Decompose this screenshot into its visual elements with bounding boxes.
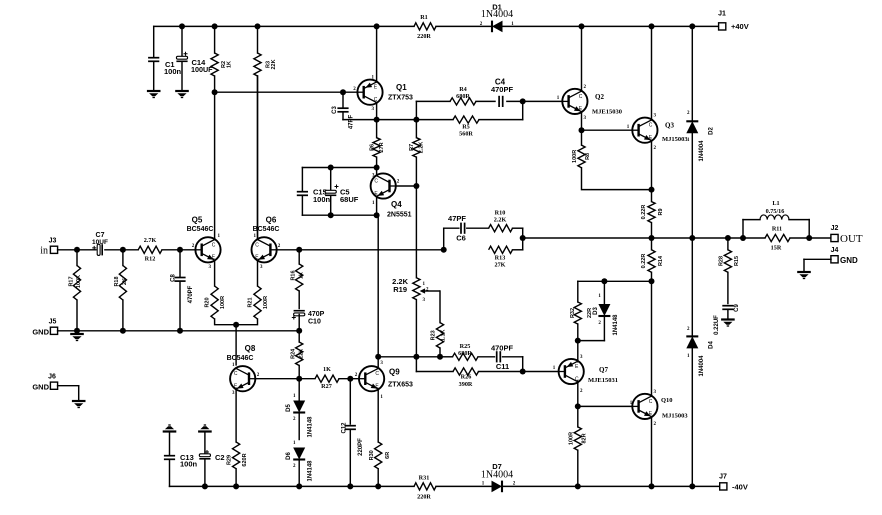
svg-text:100n: 100n: [180, 460, 198, 469]
capacitor C4 470PF: [498, 96, 500, 107]
svg-text:100R: 100R: [572, 150, 578, 163]
resistor R24 22K: [298, 331, 300, 342]
capacitor C12 220PF: [349, 379, 351, 424]
terminal J6 GND: [50, 382, 57, 389]
resistor R26 390R: [415, 357, 417, 372]
svg-text:680R: 680R: [458, 350, 472, 357]
svg-text:R24: R24: [291, 348, 297, 359]
svg-text:220R: 220R: [417, 494, 431, 501]
svg-text:BC546C: BC546C: [253, 226, 280, 233]
terminal J1 +40V: [719, 23, 726, 30]
resistor R33 82R: [577, 406, 579, 427]
resistor R17 100K: [76, 250, 78, 266]
svg-text:0.22R: 0.22R: [641, 254, 647, 269]
svg-text:D6: D6: [286, 452, 292, 460]
wire input line: [58, 249, 96, 251]
transistor Q10 MJ15003: [632, 394, 657, 419]
terminal J3 in: [50, 246, 57, 253]
terminal J4 GND: [831, 256, 838, 263]
trimpot R19 2.2K: [415, 186, 417, 278]
resistor R28 51R: [727, 238, 729, 250]
ground J6: [72, 400, 86, 402]
capacitor C6 47PF: [443, 228, 445, 250]
resistor R18 2K2: [122, 250, 124, 266]
svg-text:1N4004: 1N4004: [699, 355, 705, 377]
wire Q9 collector node: [378, 356, 440, 358]
wire tail node down: [233, 322, 239, 328]
svg-text:OUT: OUT: [840, 233, 863, 245]
svg-text:68UF: 68UF: [340, 195, 359, 204]
svg-text:J6: J6: [48, 373, 56, 380]
ground J4: [797, 271, 811, 273]
capacitor C2: [198, 430, 212, 432]
wire output line: [523, 237, 743, 239]
svg-text:D3: D3: [593, 307, 599, 315]
svg-text:R11: R11: [772, 226, 782, 233]
wire Q7 collector up: [577, 341, 579, 362]
junction dots bottom rail: [202, 483, 208, 489]
svg-text:C: C: [649, 399, 653, 405]
wire gnd rail: [58, 330, 300, 332]
svg-text:C11: C11: [496, 362, 509, 371]
svg-text:R25: R25: [460, 343, 471, 350]
svg-text:R7: R7: [409, 144, 415, 151]
svg-text:R4: R4: [459, 86, 467, 93]
ground C9: [721, 318, 735, 320]
svg-text:2N5551: 2N5551: [387, 212, 412, 219]
svg-text:GND: GND: [32, 328, 49, 337]
svg-text:J4: J4: [831, 247, 839, 254]
terminal J5 GND: [50, 327, 57, 334]
svg-text:R14: R14: [658, 255, 664, 266]
resistor R12 2.7K: [138, 246, 162, 253]
svg-text:C: C: [579, 94, 583, 100]
svg-text:27R: 27R: [379, 142, 385, 152]
transistor Q9 ZTX653: [359, 366, 384, 391]
resistor R9 0.22R: [651, 190, 653, 202]
svg-text:Q8: Q8: [245, 344, 256, 353]
svg-text:R10: R10: [495, 210, 506, 217]
svg-text:R26: R26: [461, 374, 472, 381]
diode D4 1N4004: [691, 238, 693, 335]
resistor R5 560R: [416, 119, 453, 121]
wire Q6 collector up to R3: [257, 76, 259, 240]
svg-text:0.75/16: 0.75/16: [766, 208, 785, 215]
resistor R8 100R: [581, 130, 583, 145]
wire Q10 emitter down: [651, 417, 653, 487]
svg-text:6R: 6R: [385, 452, 391, 459]
wire J6 to ground: [58, 385, 79, 387]
junction dots top rail: [179, 23, 185, 29]
transistor Q1 ZTX753: [357, 80, 382, 105]
capacitor C3 47PF: [342, 92, 344, 108]
svg-text:1N4004: 1N4004: [699, 140, 705, 162]
wire to Q2 base: [522, 101, 524, 119]
capacitor C7 10UF: [97, 244, 100, 255]
svg-text:R8: R8: [585, 153, 591, 160]
ground C1: [147, 90, 161, 92]
wire Q4 collector: [376, 168, 378, 176]
wire C15 box top: [302, 167, 376, 169]
diode D3 1N4148: [603, 281, 605, 305]
transistor Q2 MJE15030: [562, 89, 587, 114]
svg-text:2.2K: 2.2K: [419, 142, 425, 154]
capacitor C13 100n: [163, 430, 177, 432]
svg-text:1N4148: 1N4148: [308, 460, 314, 482]
svg-text:100R: 100R: [568, 432, 574, 445]
svg-text:Q5: Q5: [192, 216, 203, 225]
svg-text:MJE15030: MJE15030: [592, 109, 622, 116]
wire J4 to ground: [804, 258, 831, 260]
svg-text:C: C: [375, 371, 379, 377]
svg-text:BC546C: BC546C: [227, 355, 254, 362]
wire Q3 collector to rail: [651, 26, 653, 120]
svg-text:C3: C3: [332, 106, 338, 114]
svg-text:1N4004: 1N4004: [481, 470, 513, 481]
wire +40V top rail: [154, 25, 414, 27]
wire Q2 emitter down: [581, 112, 583, 131]
inductor L1 0.75/16: [742, 220, 744, 238]
svg-text:1N4148: 1N4148: [308, 416, 314, 438]
svg-text:+40V: +40V: [731, 22, 749, 31]
R4 C4 R5 network: [415, 101, 417, 119]
svg-text:Q1: Q1: [396, 83, 407, 92]
svg-text:R30: R30: [369, 450, 375, 460]
svg-text:15R: 15R: [771, 245, 782, 252]
svg-text:220PF: 220PF: [358, 438, 364, 456]
resistor R1: [414, 23, 436, 30]
resistor R29 620R: [233, 442, 240, 469]
svg-text:ZTX653: ZTX653: [388, 382, 413, 389]
svg-text:J1: J1: [718, 11, 726, 18]
resistor R7 2.2K: [415, 120, 417, 138]
svg-text:390R: 390R: [459, 381, 473, 388]
svg-text:1N4148: 1N4148: [613, 314, 619, 336]
svg-text:R21: R21: [247, 297, 253, 307]
transistor Q8 BC546C: [230, 366, 255, 391]
svg-text:MJ15003: MJ15003: [662, 136, 688, 143]
wire Q6 base to feedback line: [277, 249, 444, 251]
svg-text:680R: 680R: [456, 93, 470, 100]
wire Q5 collector up: [214, 92, 216, 239]
capacitor C11 470PF: [496, 351, 498, 362]
svg-text:MJ15003: MJ15003: [662, 413, 688, 420]
R32 D3 box: [577, 340, 579, 342]
transistor Q4 2N5551: [371, 173, 396, 198]
svg-text:C12: C12: [341, 422, 347, 434]
capacitor C10 470P: [294, 313, 305, 316]
transistor Q6 BC546C: [252, 237, 277, 262]
svg-text:47PF: 47PF: [349, 114, 355, 129]
wire VAS column down: [377, 215, 379, 366]
svg-text:Q10: Q10: [661, 397, 673, 404]
svg-text:10UF: 10UF: [92, 239, 108, 246]
resistor R16 1K: [298, 250, 300, 264]
capacitor C14 100UF: [181, 26, 183, 57]
svg-text:2.2K: 2.2K: [494, 217, 507, 224]
capacitor C1 100n: [153, 26, 155, 57]
svg-text:R31: R31: [419, 475, 430, 482]
svg-text:R20: R20: [204, 297, 210, 307]
resistor R4 680R: [450, 98, 476, 105]
wire Q9 emitter: [377, 389, 379, 442]
resistor R23 1.1K: [439, 291, 441, 323]
svg-text:1.1K: 1.1K: [441, 329, 447, 341]
wire Q10 collector up: [651, 281, 653, 396]
resistor R6 27R: [376, 120, 378, 138]
svg-text:ZTX753: ZTX753: [388, 95, 413, 102]
svg-text:220R: 220R: [417, 33, 431, 40]
svg-text:R17: R17: [68, 276, 74, 286]
svg-text:R5: R5: [462, 124, 470, 131]
resistor R32 100R: [577, 281, 579, 302]
svg-text:560R: 560R: [459, 131, 473, 138]
wire D3 bottom: [578, 340, 605, 342]
resistor R21 100R: [257, 260, 259, 286]
svg-text:L1: L1: [772, 200, 779, 207]
svg-text:R6: R6: [369, 144, 375, 151]
svg-text:C8: C8: [171, 274, 177, 282]
svg-text:GND: GND: [32, 382, 49, 391]
svg-text:1K: 1K: [323, 366, 331, 373]
svg-text:Q2: Q2: [595, 93, 604, 101]
svg-text:R19: R19: [393, 285, 407, 294]
terminal J2 OUT: [831, 234, 838, 241]
wire Q8 base line: [256, 378, 315, 380]
resistor R31: [414, 483, 436, 490]
svg-text:R28: R28: [719, 256, 725, 266]
svg-text:C10: C10: [308, 319, 321, 326]
svg-text:Q6: Q6: [266, 216, 277, 225]
transistor Q5 BC546C: [195, 237, 220, 262]
wire Q4 emitter: [376, 196, 378, 215]
terminal J7 -40V: [720, 483, 727, 490]
transistor Q7 MJE15031: [559, 359, 584, 384]
diode D7: [492, 481, 503, 493]
svg-text:100n: 100n: [313, 195, 331, 204]
wire Q2 to Q3 base: [582, 129, 632, 131]
transistor Q3 MJ15003: [632, 118, 657, 143]
wire bias line to Q10: [578, 405, 632, 407]
wire Q1 emitter to rail: [376, 26, 378, 82]
wire Q4 base to R7: [396, 185, 416, 187]
svg-text:C6: C6: [456, 234, 466, 243]
svg-text:C9: C9: [734, 304, 740, 312]
resistor R3 22K: [257, 26, 259, 53]
svg-text:470P: 470P: [308, 311, 325, 318]
svg-text:620R: 620R: [242, 453, 248, 466]
svg-text:BC546C: BC546C: [187, 226, 214, 233]
svg-text:J3: J3: [49, 238, 57, 245]
svg-text:100n: 100n: [164, 67, 182, 76]
svg-text:C: C: [212, 242, 216, 248]
svg-text:R16: R16: [291, 270, 297, 280]
svg-text:Q7: Q7: [599, 366, 608, 374]
svg-text:in: in: [40, 246, 48, 257]
wire C15 box bottom: [302, 214, 378, 216]
resistor R14 0.22R: [651, 238, 653, 250]
svg-text:R1: R1: [420, 14, 428, 21]
svg-text:470PF: 470PF: [491, 344, 514, 353]
svg-text:0.22UF: 0.22UF: [714, 315, 720, 335]
svg-text:J7: J7: [719, 474, 727, 481]
svg-text:82R: 82R: [581, 433, 587, 443]
svg-text:C: C: [374, 179, 378, 185]
svg-text:470PF: 470PF: [491, 85, 514, 94]
svg-text:470PF: 470PF: [188, 285, 194, 303]
wire to Q7 base: [522, 357, 524, 372]
resistor R27 1K: [315, 375, 339, 382]
svg-text:47PF: 47PF: [448, 214, 466, 223]
wire Q7 emitter down: [577, 381, 579, 406]
svg-text:R13: R13: [495, 255, 506, 262]
wire -40V bottom rail: [170, 485, 415, 487]
svg-text:R9: R9: [658, 208, 664, 215]
svg-text:R15: R15: [734, 256, 740, 266]
wire Q2 collector to rail: [581, 26, 583, 91]
svg-text:0.22R: 0.22R: [641, 205, 647, 220]
capacitor C5 68UF: [330, 168, 332, 192]
svg-text:100R: 100R: [263, 296, 269, 309]
wire R32 top line: [578, 280, 652, 282]
capacitor C15 100n: [301, 168, 303, 192]
svg-text:R12: R12: [145, 256, 156, 263]
resistor R13 27K: [489, 246, 513, 253]
svg-text:22K: 22K: [298, 349, 304, 359]
svg-text:2K: 2K: [122, 278, 128, 285]
svg-text:J2: J2: [831, 225, 839, 232]
svg-text:C: C: [255, 242, 259, 248]
capacitor C9 0.22UF: [722, 305, 733, 307]
svg-text:1K: 1K: [226, 61, 232, 68]
svg-text:100K: 100K: [76, 275, 82, 288]
svg-text:Q4: Q4: [391, 200, 402, 209]
svg-text:D4: D4: [709, 341, 715, 349]
svg-text:2.7K: 2.7K: [144, 237, 157, 244]
svg-text:GND: GND: [840, 256, 858, 265]
resistor R20 100R: [214, 260, 216, 286]
svg-text:1N4004: 1N4004: [481, 9, 513, 20]
svg-text:C: C: [649, 123, 653, 129]
svg-text:1K: 1K: [298, 272, 304, 279]
resistor R11 15R: [765, 234, 790, 241]
svg-text:Q3: Q3: [665, 122, 674, 130]
svg-text:C2: C2: [215, 453, 225, 462]
svg-text:R18: R18: [114, 276, 120, 286]
svg-text:-40V: -40V: [732, 483, 748, 492]
resistor R10 2.2K: [489, 225, 513, 232]
wire Q1 base line: [215, 91, 357, 93]
wire Q3 emitter down: [651, 140, 653, 189]
svg-text:R32: R32: [570, 308, 576, 318]
svg-text:22K: 22K: [271, 59, 277, 69]
svg-text:D5: D5: [286, 404, 292, 412]
svg-text:100R: 100R: [220, 296, 226, 309]
svg-text:C7: C7: [96, 232, 105, 239]
svg-text:C: C: [234, 371, 238, 377]
diode D2 1N4004: [691, 26, 693, 120]
ground J5: [70, 333, 84, 335]
svg-text:R29: R29: [226, 455, 232, 465]
resistor R2 1K: [214, 26, 216, 53]
svg-text:R27: R27: [321, 383, 332, 390]
wiper R19: [425, 290, 441, 292]
capacitor C8 470PF: [179, 250, 181, 277]
svg-text:27K: 27K: [494, 262, 505, 269]
wire Q8 emitter: [235, 389, 237, 442]
svg-text:MJE15031: MJE15031: [588, 377, 618, 384]
diode D6 1N4148: [293, 448, 305, 460]
wire Q1 collector down: [376, 102, 378, 119]
svg-text:J5: J5: [49, 319, 57, 326]
svg-text:Q9: Q9: [389, 368, 400, 377]
svg-text:R23: R23: [431, 330, 437, 340]
ground C14: [175, 90, 189, 92]
diode D1: [492, 21, 503, 33]
resistor R25 680R: [440, 356, 453, 358]
diode D5 1N4148: [298, 379, 300, 402]
wire Q1 collector node line: [343, 119, 416, 121]
resistor R30 6R: [375, 442, 382, 469]
wire fb join: [522, 228, 524, 250]
svg-text:D2: D2: [709, 127, 715, 135]
